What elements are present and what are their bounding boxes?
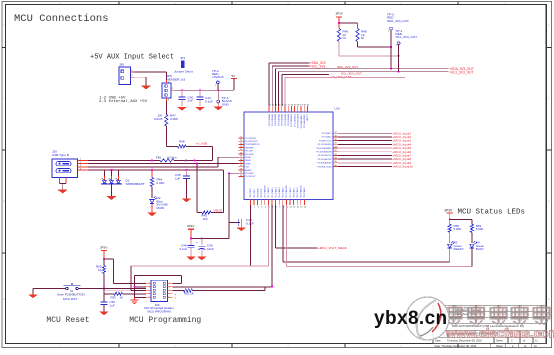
ground at C48 — [187, 257, 196, 260]
node junction TP1 — [398, 55, 400, 57]
pins J20 right stubs — [78, 159, 89, 171]
labels J29 — [144, 303, 174, 314]
pin J30-2 — [131, 75, 135, 77]
capacitor C40 — [179, 90, 194, 106]
svg-text:5V: 5V — [232, 74, 236, 78]
svg-text:+5V AUX Input Select: +5V AUX Input Select — [90, 54, 174, 62]
power 3P3V (LEDs) — [444, 208, 453, 219]
wire J30-1 to JP6-1 — [134, 72, 166, 80]
title MCU Reset — [46, 316, 89, 325]
label SCL_3V3_OUT right — [450, 71, 474, 75]
watermark ybx8.cn text — [374, 308, 448, 329]
power 3P3V (mid) — [187, 224, 194, 238]
svg-text:10uF: 10uF — [207, 247, 214, 251]
svg-text:19: 19 — [240, 168, 242, 170]
wire rail VBUS — [88, 159, 160, 161]
svg-text:HEADER 1x3: HEADER 1x3 — [167, 78, 186, 82]
svg-text:1K: 1K — [120, 295, 124, 299]
svg-text:R52 1K: R52 1K — [184, 292, 194, 296]
power 5V — [231, 74, 237, 90]
svg-text:RST/NMI: RST/NMI — [245, 147, 254, 149]
wire TP-0 down — [390, 30, 392, 69]
wire LED BUSY line — [286, 205, 472, 267]
wire R48 bottom — [357, 42, 359, 48]
wire rail Dminus — [88, 163, 244, 165]
svg-text:MCU Status LEDs: MCU Status LEDs — [458, 209, 526, 217]
wire C46 to gnd — [240, 222, 242, 228]
wire SCL_3V3 — [272, 65, 309, 67]
svg-text:R48: R48 — [179, 139, 185, 143]
svg-text:www.elecfans.com: www.elecfans.com — [445, 326, 554, 341]
ground at D2 — [148, 213, 157, 216]
node dot VCC pin — [228, 172, 230, 174]
svg-text:NI: NI — [361, 36, 364, 40]
wire MCU_VOLT_MEAS — [276, 247, 318, 249]
testpoint TP-1 — [396, 29, 418, 47]
op-amp U10 MCU body — [244, 107, 340, 200]
resistor R45 — [197, 211, 224, 221]
node dot TP-0 on SDA — [390, 68, 392, 70]
labels MCU_Input nets — [393, 131, 414, 168]
svg-text:70: 70 — [291, 104, 293, 106]
svg-text:«SCL_3V3: «SCL_3V3 — [310, 65, 326, 69]
node dot R44 — [151, 169, 153, 171]
marker NC pin10 — [175, 296, 177, 300]
title MCU Status LEDs — [458, 209, 526, 217]
title MCU Programming — [129, 316, 201, 325]
svg-text:SP0503BAHT: SP0503BAHT — [126, 182, 145, 186]
node dot C40 — [181, 89, 183, 91]
testpoint TP-0 — [387, 13, 409, 33]
svg-text:13: 13 — [240, 149, 242, 151]
wire bus verticals to MCU top pins — [269, 63, 285, 106]
svg-text:13: 13 — [293, 207, 295, 209]
svg-text:P3.2/UCB0CLK: P3.2/UCB0CLK — [318, 155, 333, 157]
wire SDA_3V3_OUT — [275, 68, 448, 70]
svg-text:Sheet: Sheet — [496, 344, 503, 348]
ground at C50 — [100, 312, 109, 315]
svg-text:VUSB: VUSB — [245, 157, 251, 159]
pins J29 stubs — [146, 283, 173, 297]
svg-text:P2.7/UCB0STE: P2.7/UCB0STE — [318, 144, 333, 146]
svg-text:P2.6/RTCCLK: P2.6/RTCCLK — [319, 140, 332, 142]
labels U10 bottom pin names — [250, 184, 306, 197]
resistor R44 — [150, 170, 165, 186]
node junction TP0 — [390, 46, 392, 48]
svg-text:69: 69 — [294, 104, 296, 106]
svg-text:24: 24 — [334, 158, 336, 160]
capacitor C46 — [239, 218, 254, 226]
wire R46 bottom — [338, 42, 340, 56]
svg-text:AVSS2: AVSS2 — [245, 169, 252, 172]
svg-text:4: 4 — [80, 168, 81, 170]
svg-text:+: + — [196, 240, 198, 244]
svg-text:6.04K: 6.04K — [157, 181, 166, 185]
svg-text:3P3V: 3P3V — [336, 12, 343, 16]
ground at C40 — [178, 107, 187, 110]
capacitor C48 — [180, 239, 195, 257]
labels U10 left pin names — [245, 138, 260, 178]
svg-text:9: 9 — [279, 207, 280, 209]
wire R48 to TP-0 vertical — [358, 46, 392, 48]
svg-text:12: 12 — [290, 207, 292, 209]
labels U10 bottom pin numbers — [250, 207, 306, 209]
svg-text:0.1uF: 0.1uF — [205, 99, 213, 103]
labels U10 top pin numbers — [269, 104, 310, 106]
wire rail GND-D1 — [88, 169, 224, 171]
svg-text:21: 21 — [334, 146, 336, 148]
svg-text:3P3V: 3P3V — [100, 245, 107, 249]
svg-text:14: 14 — [240, 152, 242, 154]
capacitor C44 — [197, 90, 214, 106]
wire D3 to line — [449, 248, 451, 262]
switch S1 pushbutton — [58, 283, 85, 301]
svg-text:MCU Reset: MCU Reset — [46, 316, 89, 325]
node dot rail A3 — [194, 160, 196, 162]
wire reset branch right — [104, 259, 146, 284]
svg-text:PU.1/DP: PU.1/DP — [245, 151, 253, 153]
svg-text:+5VAUX: +5VAUX — [212, 75, 224, 79]
svg-text:PJ.1/TDI: PJ.1/TDI — [254, 189, 256, 197]
svg-text:GND: GND — [222, 102, 230, 106]
resistor R47 sense — [154, 101, 178, 146]
svg-text:JP1: JP1 — [180, 56, 186, 60]
marker NC pin8 — [175, 292, 177, 296]
wire VCC pin row — [229, 172, 244, 174]
node dot rail A1 — [151, 160, 153, 162]
header JP6 — [162, 74, 186, 98]
wire LED READY line — [283, 205, 450, 262]
node 3P3V junction — [338, 22, 340, 24]
svg-text:Jumper Shunt: Jumper Shunt — [174, 69, 193, 73]
svg-text:P2.1/TA1.2: P2.1/TA1.2 — [296, 186, 299, 197]
pins U10 bottom stubs — [250, 200, 304, 206]
svg-text:1: 1 — [168, 81, 169, 83]
svg-text:14: 14 — [297, 207, 299, 209]
svg-text:P2.3/TA2.0: P2.3/TA2.0 — [303, 186, 306, 197]
svg-text:P6.3/CB3/A3: P6.3/CB3/A3 — [277, 113, 280, 125]
wire spare pink bus — [285, 77, 405, 79]
wire pin riser pink — [267, 205, 269, 266]
svg-text:P2.2/TA2CLK: P2.2/TA2CLK — [300, 184, 303, 197]
svg-text:NI: NI — [343, 36, 346, 40]
title +5V AUX Input Select — [90, 54, 174, 62]
power 3P3V (reset) — [100, 245, 107, 258]
svg-text:21: 21 — [240, 175, 242, 177]
svg-text:15: 15 — [300, 207, 302, 209]
svg-text:SDA_3V3_OUT: SDA_3V3_OUT — [387, 19, 409, 23]
label SDA_3V3_OUT mid — [337, 65, 358, 69]
svg-text:22: 22 — [334, 150, 336, 152]
label SDA_3V3_OUT right — [450, 67, 474, 71]
svg-text:P5.5/XOUT: P5.5/XOUT — [245, 176, 256, 178]
ground at C46 — [237, 228, 245, 231]
svg-text:6mm PUSHBUTTON: 6mm PUSHBUTTON — [58, 292, 85, 296]
label +V_USB — [196, 142, 208, 146]
svg-text:1uF: 1uF — [175, 177, 180, 181]
svg-text:P6.6/CB6/A6: P6.6/CB6/A6 — [287, 113, 290, 125]
svg-text:SCL_3V3_OUT: SCL_3V3_OUT — [396, 35, 418, 39]
svg-text:23: 23 — [334, 154, 336, 156]
svg-text:MCU Programming: MCU Programming — [129, 316, 201, 325]
svg-text:1: 1 — [80, 159, 81, 161]
svg-text:16: 16 — [240, 159, 242, 161]
wire long pink horizontal — [131, 265, 268, 267]
resistor R51 — [104, 292, 146, 299]
svg-text:«SCL_3V3_OUT: «SCL_3V3_OUT — [450, 71, 474, 75]
svg-text:3: 3 — [80, 165, 81, 167]
wire IO_UDT_HUM — [282, 74, 329, 76]
svg-text:P7.0/CB8/A12: P7.0/CB8/A12 — [290, 113, 293, 127]
title block frame — [433, 305, 546, 347]
wire VBUS down to R45 — [223, 170, 225, 212]
wire +V_USB riser — [186, 146, 213, 160]
label IO_UDT_HUM — [330, 75, 352, 79]
svg-text:LVK25: LVK25 — [154, 117, 163, 121]
svg-text:25: 25 — [334, 161, 336, 163]
svg-text:66: 66 — [304, 104, 306, 106]
svg-text:P5.1/A9/VREF-: P5.1/A9/VREF- — [303, 114, 306, 128]
svg-text:12: 12 — [240, 146, 242, 148]
wire JTAG long down — [249, 205, 251, 266]
svg-text:VBUS: VBUS — [245, 160, 251, 162]
svg-text:73: 73 — [281, 104, 283, 106]
testpoint TP-2 — [212, 69, 224, 90]
pin J30-1 — [131, 70, 135, 72]
svg-text:P7.1/CB9/A13: P7.1/CB9/A13 — [293, 113, 296, 127]
pin JP6-3 stub — [166, 98, 169, 102]
svg-text:SDA_3V3_OUT: SDA_3V3_OUT — [337, 65, 358, 69]
svg-text:100: 100 — [203, 217, 208, 221]
diode D3 LED — [448, 241, 464, 252]
wire long prog net — [131, 266, 146, 290]
node dot TP-1 on SCL — [398, 71, 400, 73]
svg-text:2: 2 — [172, 88, 173, 90]
capacitor C50 — [101, 289, 116, 312]
svg-text:P1.6/TA1CLK: P1.6/TA1CLK — [285, 184, 288, 197]
svg-text:MCU RST: MCU RST — [63, 297, 77, 301]
svg-text:P2.0/TA1.1: P2.0/TA1.1 — [292, 186, 295, 197]
pin JP6-2 stub — [171, 88, 176, 90]
wire TDI riser — [271, 205, 273, 286]
ground at D1 — [107, 197, 116, 200]
connector J20 USB — [52, 149, 78, 177]
note jumper positions — [99, 96, 148, 104]
svg-text:65: 65 — [307, 104, 309, 106]
capacitor C45 — [175, 170, 190, 199]
svg-text:PJ.0/TDO: PJ.0/TDO — [250, 188, 252, 197]
svg-text:5.90K: 5.90K — [476, 227, 484, 231]
wire switch right — [78, 288, 104, 290]
resistor R50 — [96, 259, 106, 274]
connector J29 — [149, 280, 171, 301]
label MCU_VOLT_MEAS — [318, 246, 347, 250]
svg-text:2: 2 — [80, 162, 81, 164]
wire LED rail — [450, 218, 472, 220]
svg-text:PJ.3/TCK: PJ.3/TCK — [261, 188, 263, 197]
label SCL_3V3 — [310, 65, 326, 69]
svg-text:BUSY: BUSY — [476, 247, 484, 251]
svg-text:71: 71 — [288, 104, 290, 106]
svg-text:FB1: FB1 — [156, 155, 162, 159]
svg-text:MCU Connections: MCU Connections — [14, 13, 109, 25]
wire J29 pin4 to MCU — [173, 286, 273, 288]
wire MCU_VOLT riser — [275, 205, 277, 248]
node dot C49 tap — [201, 238, 203, 240]
svg-text:5: 5 — [265, 207, 266, 209]
svg-text:18: 18 — [334, 135, 336, 137]
svg-text:0.066: 0.066 — [170, 117, 178, 121]
svg-text:×: × — [175, 296, 177, 300]
wire C46 branch — [229, 221, 240, 223]
label SDA_3V3 — [310, 61, 326, 65]
svg-text:+V_USB: +V_USB — [196, 142, 208, 146]
node dot rail A2 — [185, 160, 187, 162]
svg-text:P4.0/PM_UCB1: P4.0/PM_UCB1 — [317, 166, 332, 168]
svg-text:72: 72 — [285, 104, 287, 106]
wire 3P3V to R48 top — [339, 22, 358, 24]
ground at C45 — [182, 199, 191, 202]
resistor R46 (SDA pullup) — [337, 23, 348, 42]
ground IEC at J29 — [131, 297, 139, 303]
svg-text:P6.2/CB2/A2: P6.2/CB2/A2 — [274, 113, 277, 125]
wire R44 to D2 — [151, 187, 153, 199]
node dot R45 tap — [196, 163, 198, 165]
svg-text:MCU PROGRAM: MCU PROGRAM — [147, 310, 171, 314]
svg-text:J30: J30 — [119, 63, 124, 67]
ground at C44 — [196, 107, 205, 110]
svg-text:3: 3 — [168, 100, 169, 102]
pins J20 shield stubs — [60, 178, 67, 191]
svg-text:VSSU: VSSU — [245, 163, 251, 165]
svg-text:1uF: 1uF — [188, 99, 193, 103]
svg-text:ybx8.cn: ybx8.cn — [374, 308, 448, 329]
svg-text:17: 17 — [334, 132, 336, 134]
svg-text:USB Type B: USB Type B — [52, 153, 69, 157]
svg-text:«MCU_Input10: «MCU_Input10 — [393, 165, 414, 169]
wire SDA_3V3 — [269, 62, 310, 64]
svg-text:16: 16 — [304, 207, 306, 209]
svg-text:17: 17 — [240, 162, 242, 164]
pins U10 right stubs — [333, 133, 338, 166]
wire R53 to D4 — [471, 232, 473, 243]
svg-text:P5.4/XIN: P5.4/XIN — [245, 173, 254, 175]
svg-text:R51: R51 — [111, 295, 117, 299]
node dot TP rail — [217, 89, 219, 91]
diode D2 LED blue — [150, 196, 168, 210]
ground at C49 — [197, 257, 206, 260]
wire railB down to R45 — [196, 164, 198, 213]
svg-text:Date: Thursday, December 08,: Date: Thursday, December 08, 2016 — [435, 344, 477, 348]
svg-text:P5.3/XT2OUT: P5.3/XT2OUT — [245, 141, 258, 143]
svg-text:P1.1/TA0.0: P1.1/TA0.0 — [267, 186, 270, 197]
wire rail VBUS after FB1 — [174, 159, 213, 161]
svg-text:4: 4 — [261, 207, 262, 209]
power 3P3V (top) — [336, 12, 343, 24]
wire D4 to line — [471, 248, 473, 267]
svg-text:READY: READY — [454, 247, 464, 251]
svg-text:of: of — [524, 344, 526, 348]
svg-text:P5.2/XT2IN: P5.2/XT2IN — [245, 138, 256, 140]
node dot reset top — [103, 258, 105, 260]
svg-text:0.1uF: 0.1uF — [180, 247, 188, 251]
svg-text:AVCC1: AVCC1 — [306, 113, 309, 120]
svg-text:P3.1/UCB0SOMI: P3.1/UCB0SOMI — [316, 152, 332, 154]
svg-text:19: 19 — [334, 139, 336, 141]
svg-text:26: 26 — [334, 165, 336, 167]
diode D4 LED — [470, 241, 485, 252]
labels U10 left pin numbers — [240, 136, 242, 176]
svg-text:P6.5/CB5/A5: P6.5/CB5/A5 — [284, 113, 287, 125]
node dot 3P3V mid — [190, 238, 192, 240]
svg-text:P3.4/UCA0RXD: P3.4/UCA0RXD — [317, 162, 332, 165]
wire switch to J29 — [104, 288, 146, 290]
svg-text:20: 20 — [334, 143, 336, 145]
svg-text:P5.0/A8/VREF+: P5.0/A8/VREF+ — [300, 113, 303, 128]
svg-text:1K: 1K — [98, 268, 102, 272]
wire J30-2 to ground — [134, 77, 146, 86]
svg-text:3P3V: 3P3V — [444, 208, 453, 212]
wire loop top — [135, 276, 182, 284]
node dot C45 — [186, 169, 188, 171]
svg-text:68: 68 — [297, 104, 299, 106]
svg-text:P1.7/TA1.0: P1.7/TA1.0 — [289, 186, 292, 197]
svg-text:P6.0/CB0/A0: P6.0/CB0/A0 — [268, 113, 271, 125]
svg-text:1uF: 1uF — [110, 304, 115, 308]
svg-text:PU.0/DM: PU.0/DM — [245, 154, 253, 156]
svg-text:P1.2/TA0.1: P1.2/TA0.1 — [271, 186, 274, 197]
svg-text:«MCU_VOLT_MEAS: «MCU_VOLT_MEAS — [318, 246, 347, 250]
svg-text:MAIN: MAIN — [157, 206, 165, 210]
svg-text:P1.5/TA0.4: P1.5/TA0.4 — [282, 186, 285, 197]
svg-text:P1.3/TA0.2: P1.3/TA0.2 — [274, 186, 277, 197]
resistor R56 — [448, 219, 461, 232]
capacitor C49 — [196, 239, 214, 257]
svg-text:P3.3/UCA0TXD: P3.3/UCA0TXD — [318, 158, 333, 161]
svg-text:15: 15 — [240, 156, 242, 158]
wire pink prog — [104, 289, 146, 291]
wire rail Dplus — [88, 157, 244, 167]
svg-text:76: 76 — [272, 104, 274, 106]
watermark chinese red — [448, 305, 550, 322]
node dot loop — [134, 286, 136, 288]
svg-text:5.90K: 5.90K — [454, 227, 462, 231]
svg-text:75: 75 — [275, 104, 277, 106]
svg-text:10: 10 — [240, 140, 242, 142]
svg-text:Date:: Date: — [435, 339, 441, 343]
title MCU Connections — [14, 13, 109, 25]
watermark elecfans url — [445, 326, 554, 341]
resistor R48 (SCL pullup) — [356, 23, 367, 42]
pin JP6-1 stub — [166, 80, 169, 83]
ground at TP-3 — [214, 103, 223, 110]
node dot pin4 — [271, 286, 273, 288]
ferrite FB1 — [156, 155, 177, 162]
testpoint TP-3 — [217, 90, 233, 106]
svg-text:20: 20 — [240, 172, 242, 174]
connector J30 — [119, 63, 131, 85]
node dot C44 — [199, 89, 201, 91]
svg-text:77: 77 — [269, 104, 271, 106]
wire switch left — [33, 288, 66, 290]
node dot D1 — [111, 169, 113, 171]
label VBUS — [214, 209, 222, 213]
wire R50 to node — [103, 274, 105, 289]
watermark chinese gray — [446, 306, 550, 325]
svg-text:67: 67 — [301, 104, 303, 106]
wire D2 to gnd — [151, 203, 153, 212]
svg-text:11: 11 — [240, 143, 242, 145]
